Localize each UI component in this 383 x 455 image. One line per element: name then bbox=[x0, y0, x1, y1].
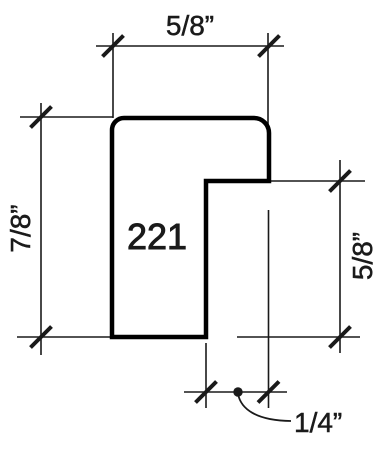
svg-text:1/4”: 1/4” bbox=[294, 407, 342, 438]
tick bottom-right bbox=[258, 382, 279, 403]
tick top-left bbox=[103, 36, 124, 57]
extension line top-right bbox=[267, 33, 269, 128]
extension line left-top bbox=[20, 116, 113, 118]
extension line bottom-right bbox=[268, 210, 270, 408]
tick right-bottom bbox=[330, 327, 351, 348]
tick bottom-left bbox=[196, 382, 217, 403]
tick left-bottom bbox=[31, 327, 52, 348]
tick right-top bbox=[330, 171, 351, 192]
leader dot bbox=[233, 387, 242, 396]
extension line bottom-left bbox=[205, 343, 207, 408]
extension line left-bottom bbox=[17, 336, 112, 338]
svg-text:5/8”: 5/8” bbox=[347, 232, 378, 280]
moulding profile outline 221 bbox=[112, 118, 269, 337]
svg-text:5/8”: 5/8” bbox=[166, 10, 214, 41]
svg-text:221: 221 bbox=[127, 216, 187, 257]
left dimension line 7/8 bbox=[40, 103, 42, 355]
bottom dimension line 1/4 bbox=[184, 391, 287, 393]
tick left-top bbox=[31, 107, 52, 128]
leader curve bbox=[238, 394, 291, 421]
extension line right-bottom bbox=[237, 336, 360, 338]
extension line right-top bbox=[271, 180, 365, 182]
extension line top-left bbox=[112, 33, 114, 118]
top dimension line 5/8 bbox=[96, 45, 284, 47]
tick top-right bbox=[259, 36, 280, 57]
right dimension line 5/8 bbox=[339, 160, 341, 353]
svg-text:7/8”: 7/8” bbox=[5, 204, 36, 252]
